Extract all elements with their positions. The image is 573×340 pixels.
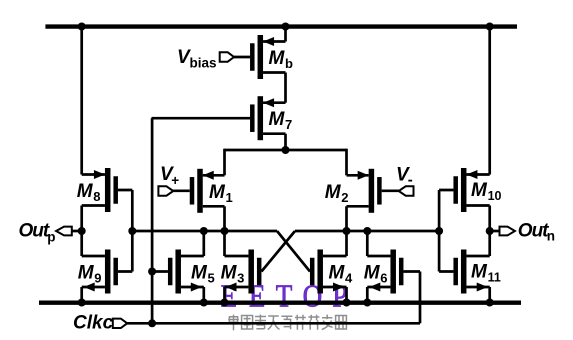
node tail	[282, 146, 290, 154]
wire M6 source to ground	[366, 287, 369, 303]
wire M1 drain M3 drain vertical	[223, 206, 226, 256]
wire VDD to Mb source	[284, 24, 287, 41]
wire cross couple net B to M3 gate	[261, 231, 295, 272]
node A gate tie left	[128, 227, 136, 235]
node Clkc wire	[148, 319, 156, 327]
wire Clkc riser to M6 gate	[419, 272, 422, 324]
svg-text:M: M	[329, 263, 346, 284]
svg-text:bias: bias	[190, 56, 217, 71]
svg-text:b: b	[285, 56, 293, 71]
svg-text:+: +	[171, 173, 179, 188]
node Clkc-M5 gate	[148, 268, 156, 276]
node A M5 drain	[200, 227, 208, 235]
wire M9 source to ground	[80, 287, 83, 303]
wire M10 source to VDD	[488, 24, 491, 174]
wire tail to M2 source	[345, 149, 348, 176]
wire net A horizontal	[132, 230, 277, 233]
port V-	[396, 165, 414, 196]
node B gate tie right	[435, 227, 443, 235]
node gnd-M11	[486, 299, 494, 307]
wire M4 source to ground	[345, 287, 348, 303]
svg-text:2: 2	[341, 190, 348, 205]
port Outp	[19, 220, 72, 244]
svg-text:1: 1	[226, 190, 233, 205]
wire M7 drain to tail node	[284, 134, 287, 150]
svg-text:M: M	[471, 262, 488, 283]
transistor M4	[310, 250, 353, 294]
transistor M5	[152, 250, 215, 294]
svg-text:T: T	[276, 279, 293, 313]
wire M5 drain vertical	[202, 231, 205, 256]
transistor M7	[152, 96, 293, 140]
svg-text:3: 3	[237, 271, 244, 286]
svg-text:9: 9	[94, 271, 101, 286]
wire ground bottom rail	[39, 301, 521, 305]
watermark chinese text	[228, 315, 346, 331]
transistor M1	[173, 169, 232, 213]
svg-text:M: M	[269, 109, 286, 130]
wire Outp port stub	[72, 230, 82, 233]
transistor M6	[364, 250, 420, 294]
wire M8 drain to M9 drain (Outp node)	[80, 206, 83, 257]
node gnd-M3	[221, 299, 229, 307]
transistor M8	[77, 168, 133, 212]
wire M2 drain M4 drain vertical	[345, 206, 348, 256]
wire M10 drain to M11 drain (Outn node)	[488, 206, 491, 257]
svg-text:5: 5	[208, 271, 215, 286]
svg-text:-: -	[408, 172, 413, 189]
svg-text:M: M	[221, 263, 238, 284]
wire cross couple net A to M4 gate	[277, 231, 310, 272]
node gnd-M6	[363, 299, 371, 307]
wire M11 source to ground	[488, 287, 491, 303]
node B M2-M4 drain	[343, 227, 351, 235]
svg-text:M: M	[269, 48, 286, 69]
svg-text:Out: Out	[518, 220, 549, 241]
port Clkc	[73, 313, 127, 334]
wire M8 source to VDD	[80, 24, 83, 174]
node Outp	[78, 227, 86, 235]
wire M10 M11 gate tie	[438, 190, 441, 272]
node VDD-M8	[78, 23, 86, 31]
transistor M10	[439, 168, 501, 212]
wire M5 source to ground	[202, 287, 205, 303]
node gnd-M5	[200, 299, 208, 307]
svg-text:p: p	[47, 230, 55, 245]
wire tail node horizontal	[225, 149, 347, 152]
svg-text:6: 6	[380, 271, 387, 286]
wire Clkc vertical to M7 gate	[151, 118, 154, 323]
watermark EETOP	[221, 279, 348, 313]
svg-text:8: 8	[93, 189, 100, 204]
node VDD-M10	[486, 23, 494, 31]
node A M1-M3 drain	[221, 227, 229, 235]
svg-text:Clkc: Clkc	[73, 313, 114, 334]
svg-text:4: 4	[345, 271, 353, 286]
transistor M11	[439, 250, 501, 294]
svg-text:M: M	[191, 263, 208, 284]
node Outn	[486, 227, 494, 235]
transistor Mb	[234, 35, 293, 79]
transistor M2	[325, 169, 399, 213]
wire Outn port stub	[490, 230, 500, 233]
wire M8 M9 gate tie	[131, 190, 134, 272]
svg-text:n: n	[547, 229, 555, 244]
svg-text:Out: Out	[19, 220, 50, 241]
transistor M3	[221, 250, 262, 294]
node gnd-M9	[78, 299, 86, 307]
port V+	[158, 164, 179, 196]
svg-text:M: M	[209, 182, 226, 203]
node B M6 drain	[363, 227, 371, 235]
wire tail to M1 source	[223, 149, 226, 176]
port Outn	[500, 220, 556, 243]
svg-text:M: M	[364, 263, 381, 284]
node VDD-Mb	[282, 23, 290, 31]
svg-text:7: 7	[285, 117, 292, 132]
port Vbias	[177, 47, 234, 71]
svg-text:M: M	[325, 182, 342, 203]
svg-text:M: M	[78, 263, 95, 284]
svg-text:M: M	[471, 180, 488, 201]
svg-text:M: M	[77, 181, 94, 202]
svg-text:10: 10	[488, 189, 502, 203]
node gnd-M4	[343, 299, 351, 307]
wire M3 source to ground	[223, 287, 226, 303]
wire M6 drain vertical	[366, 231, 369, 256]
svg-text:11: 11	[488, 270, 501, 284]
transistor M9	[78, 250, 133, 294]
wire VDD top rail	[45, 24, 517, 28]
wire Clkc horizontal	[127, 322, 420, 325]
wire net B horizontal	[295, 230, 439, 233]
wire Mb drain to M7 source	[284, 73, 287, 103]
